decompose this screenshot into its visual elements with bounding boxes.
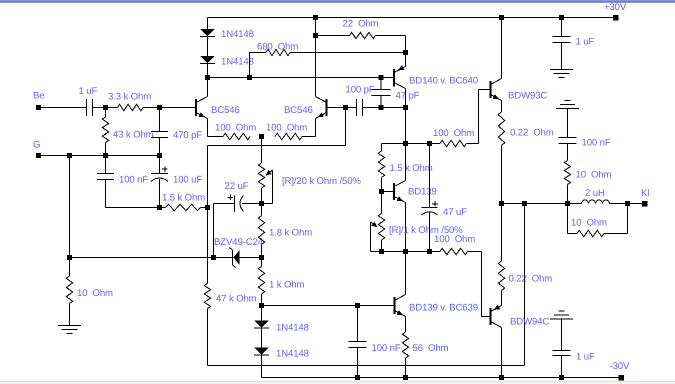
node diode-base junction: [205, 75, 210, 80]
resistor 0.22 Ohm upper: [498, 112, 504, 146]
resistor 10 Ohm zobel: [564, 161, 570, 185]
svg-text:1 uF: 1 uF: [576, 352, 595, 363]
transistor Q1 BC546: [195, 99, 197, 116]
terminal Kl output: [642, 201, 648, 207]
resistor 100 Ohm driver lower: [440, 248, 468, 254]
resistor 100 Ohm left emitter: [208, 136, 224, 138]
svg-text:470 pF: 470 pF: [173, 130, 202, 141]
capacitor 100nF lower: [357, 306, 359, 342]
svg-text:0.22 Ohm: 0.22 Ohm: [509, 274, 553, 285]
svg-text:1.5 k Ohm: 1.5 k Ohm: [162, 193, 205, 204]
resistor 1.8k Ohm: [261, 204, 263, 216]
node zener junction: [211, 255, 216, 260]
wire VAS down x405: [405, 108, 407, 144]
svg-text:[R]/20 k Ohm /50%: [R]/20 k Ohm /50%: [282, 176, 361, 187]
node emitter junction: [259, 134, 264, 139]
blue top border: [0, 0, 675, 3]
svg-text:56 Ohm: 56 Ohm: [413, 343, 449, 354]
diode D3 1N4148: [254, 321, 269, 328]
resistor 10 Ohm parallel: [567, 204, 569, 234]
capacitor 1uF top: [561, 18, 563, 37]
svg-text:22 Ohm: 22 Ohm: [343, 19, 379, 30]
wire rail to D1: [207, 18, 209, 30]
wire feedback vertical x524: [524, 204, 526, 366]
ground symbol left: [58, 325, 81, 327]
svg-text:1 uF: 1 uF: [79, 86, 98, 97]
node G-10ohm junction: [67, 153, 72, 158]
capacitor 100uF electrolytic: [159, 156, 161, 174]
svg-text:BC546: BC546: [211, 105, 240, 116]
node pot1k bottom junction: [379, 249, 384, 254]
wire 22ohm down: [405, 36, 407, 53]
wire BDW93C base: [478, 90, 480, 144]
svg-text:1 k Ohm: 1 k Ohm: [269, 280, 304, 291]
svg-text:BC546: BC546: [284, 105, 313, 116]
capacitor C1 1uF input: [86, 99, 88, 116]
wire 1k to D3: [261, 306, 263, 321]
resistor 1.5k Ohm feedback: [160, 207, 166, 209]
resistor 1.5k Ohm VAS: [381, 144, 383, 152]
node y143-47uF junction: [427, 141, 432, 146]
resistor 100 Ohm right emitter: [275, 133, 302, 139]
node rail-BDW93C junction: [499, 15, 504, 20]
wire 22uF down: [213, 204, 215, 258]
svg-text:1N4148: 1N4148: [276, 349, 309, 360]
capacitor 47uF electrolytic: [429, 144, 431, 208]
wire bias line y77: [208, 77, 394, 79]
node BD140 collector junction: [403, 105, 408, 110]
svg-text:Kl: Kl: [641, 188, 649, 199]
svg-text:0.22 Ohm: 0.22 Ohm: [510, 128, 554, 139]
node zener-1.8k junction: [259, 255, 264, 260]
resistor 56 Ohm: [402, 332, 408, 358]
node BC546L base junction: [157, 105, 162, 110]
ground symbol inverted upper: [565, 100, 571, 102]
wire C1 to node: [93, 107, 118, 109]
svg-text:100 Ohm: 100 Ohm: [434, 234, 475, 245]
svg-text:680 Ohm: 680 Ohm: [257, 42, 298, 53]
node rail-BC546R junction: [313, 15, 318, 20]
svg-text:47 k Ohm: 47 k Ohm: [216, 294, 257, 305]
node rail-56ohm junction: [403, 375, 408, 380]
svg-text:47 uF: 47 uF: [443, 207, 467, 218]
transistor Q5 BD139 upper: [393, 183, 395, 200]
wire bias line y143: [382, 143, 441, 145]
wire fb vertical x345: [345, 108, 347, 146]
wire tail down x207: [207, 146, 209, 284]
node 47pF junction: [379, 105, 384, 110]
wire -30V bottom rail: [262, 377, 620, 379]
diode D1 1N4148: [200, 29, 215, 36]
svg-text:43 k Ohm: 43 k Ohm: [113, 130, 154, 141]
svg-text:100 Ohm: 100 Ohm: [266, 123, 307, 134]
svg-text:1.5 k Ohm: 1.5 k Ohm: [390, 163, 433, 174]
inductor 2uH: [582, 200, 610, 203]
diode D4 1N4148: [254, 348, 269, 355]
wire zener left: [214, 257, 233, 259]
svg-text:BD140 v. BC640: BD140 v. BC640: [409, 76, 478, 87]
capacitor 100pF series: [356, 99, 358, 116]
svg-text:1N4148: 1N4148: [276, 323, 309, 334]
node y251-x405 junction: [403, 249, 408, 254]
resistor 680 Ohm: [250, 52, 267, 54]
transistor Q6 BD139 lower: [394, 297, 396, 314]
svg-text:1N4148: 1N4148: [221, 57, 254, 68]
diode D2 1N4148: [200, 56, 215, 63]
node rail-1uF junction: [559, 15, 564, 20]
svg-text:100 nF: 100 nF: [582, 138, 611, 149]
potentiometer R20k: [261, 137, 263, 164]
node output-Lpar junction: [625, 201, 630, 206]
node 1k-baseline junction: [259, 303, 264, 308]
svg-text:47 pF: 47 pF: [396, 91, 420, 102]
svg-text:100 pF: 100 pF: [346, 85, 375, 96]
pot 20k wiper: [269, 170, 273, 173]
resistor 100 Ohm driver upper: [440, 140, 467, 146]
zener diode BZV49-C24: [232, 250, 234, 265]
svg-text:BDW94C: BDW94C: [510, 317, 549, 328]
resistor 47k Ohm: [204, 284, 210, 309]
wire G down: [69, 156, 71, 258]
svg-text:100 nF: 100 nF: [119, 175, 148, 186]
node rail-100nF junction: [355, 375, 360, 380]
node output-feedback junction: [522, 201, 527, 206]
svg-text:BD139 v. BC639: BD139 v. BC639: [409, 303, 478, 314]
resistor 0.22 Ohm lower: [501, 204, 503, 262]
wire D3 to D4: [261, 329, 263, 348]
terminal -30V: [618, 375, 624, 381]
potentiometer R1k: [381, 192, 383, 214]
transistor Q7 BDW94C: [490, 308, 492, 325]
transistor Q4 BDW93C: [490, 81, 492, 98]
resistor 10 Ohm left: [69, 258, 71, 277]
svg-text:1.8 k Ohm: 1.8 k Ohm: [269, 228, 312, 239]
terminal G ground input: [36, 153, 41, 158]
plus mark 47uF: [432, 203, 438, 205]
node 1.5k-tail junction: [205, 205, 210, 210]
terminal +30V: [613, 15, 619, 21]
svg-text:1 uF: 1 uF: [576, 37, 595, 48]
node BD139 base junction: [379, 189, 384, 194]
svg-text:22 uF: 22 uF: [225, 181, 249, 192]
node 22ohm left tap: [313, 33, 318, 38]
node BD140 emitter node: [403, 50, 408, 55]
transistor Q3 BD140: [393, 69, 395, 87]
pot 1k wiper: [371, 222, 375, 225]
resistor 22 Ohm: [316, 35, 350, 37]
svg-text:10 Ohm: 10 Ohm: [571, 218, 607, 229]
svg-text:3.3 k Ohm: 3.3 k Ohm: [108, 92, 151, 103]
transistor Q2 BC546: [326, 99, 328, 116]
resistor 43k Ohm: [105, 108, 107, 118]
node 100nF-1.5k junction: [157, 205, 162, 210]
wire Be to C1: [41, 107, 86, 109]
capacitor 47pF: [380, 78, 382, 90]
wire BDW94C base: [481, 252, 483, 317]
node y143-x405 junction: [403, 141, 408, 146]
node input bias junction: [103, 105, 108, 110]
wire Q2 base: [327, 107, 357, 109]
wire BD139u base: [382, 191, 394, 193]
wire D1 to D2: [207, 37, 209, 56]
resistor 1k Ohm: [261, 258, 263, 267]
svg-text:BZV49-C24: BZV49-C24: [214, 237, 264, 248]
wire 680 stub: [249, 53, 251, 78]
plus mark 22uF: [228, 196, 234, 198]
node G-43k junction: [103, 153, 108, 158]
wire zener line left: [70, 257, 214, 259]
wire 100pF to node: [363, 107, 406, 109]
svg-text:100 Ohm: 100 Ohm: [433, 128, 474, 139]
node rail-1uF bottom junction: [559, 375, 564, 380]
node G-470pF junction: [157, 153, 162, 158]
node 680ohm tap: [247, 75, 252, 80]
node 100nF fb junction: [355, 303, 360, 308]
svg-text:BD139: BD139: [408, 187, 437, 198]
node BD140 base tap: [379, 75, 384, 80]
arrow Q6 emitter: [397, 310, 403, 315]
capacitor 22uF electrolytic: [214, 203, 235, 205]
capacitor 1uF bottom: [561, 319, 563, 351]
svg-text:100 uF: 100 uF: [173, 175, 202, 186]
wire G line: [41, 155, 160, 157]
node y251-47uF junction: [427, 249, 432, 254]
wire feedback bottom y365: [208, 365, 525, 367]
svg-text:1N4148: 1N4148: [221, 29, 254, 40]
node output emitter junction: [499, 201, 504, 206]
wire node to Q1 base: [160, 107, 196, 109]
capacitor 100nF left: [105, 156, 107, 174]
capacitor 100nF zobel: [567, 109, 569, 138]
svg-text:BDW93C: BDW93C: [508, 91, 547, 102]
ground symbol inverted lower: [559, 310, 565, 312]
beige bottom strip: [0, 381, 675, 384]
wire lower base line: [262, 305, 394, 307]
svg-text:+30V: +30V: [604, 2, 627, 13]
resistor 3.3k Ohm: [118, 104, 144, 110]
node fb-base junction: [343, 105, 348, 110]
svg-text:10 Ohm: 10 Ohm: [77, 288, 113, 299]
capacitor 470pF: [159, 108, 161, 132]
node output-zobel junction: [565, 201, 570, 206]
svg-text:G: G: [33, 140, 40, 151]
svg-text:Be: Be: [33, 91, 44, 102]
svg-text:100 Ohm: 100 Ohm: [215, 123, 256, 134]
svg-text:-30V: -30V: [610, 361, 630, 372]
wire D2 to node: [207, 64, 209, 78]
wire fb horizontal y145: [208, 145, 346, 147]
node 22uF junction: [259, 201, 264, 206]
wire output line: [502, 203, 582, 205]
node 10ohm-zener line junction: [67, 255, 72, 260]
plus mark 100uF: [162, 168, 168, 170]
node rail-BDW94C junction: [499, 375, 504, 380]
terminal Be input: [36, 105, 41, 110]
svg-text:2 uH: 2 uH: [585, 188, 605, 199]
wire bias line y251: [371, 251, 441, 253]
svg-text:100 nF: 100 nF: [372, 343, 401, 354]
wire D4 to rail: [261, 356, 263, 378]
wire +30V top rail: [208, 17, 615, 19]
ground symbol top right: [550, 69, 573, 71]
svg-text:10 Ohm: 10 Ohm: [576, 170, 612, 181]
